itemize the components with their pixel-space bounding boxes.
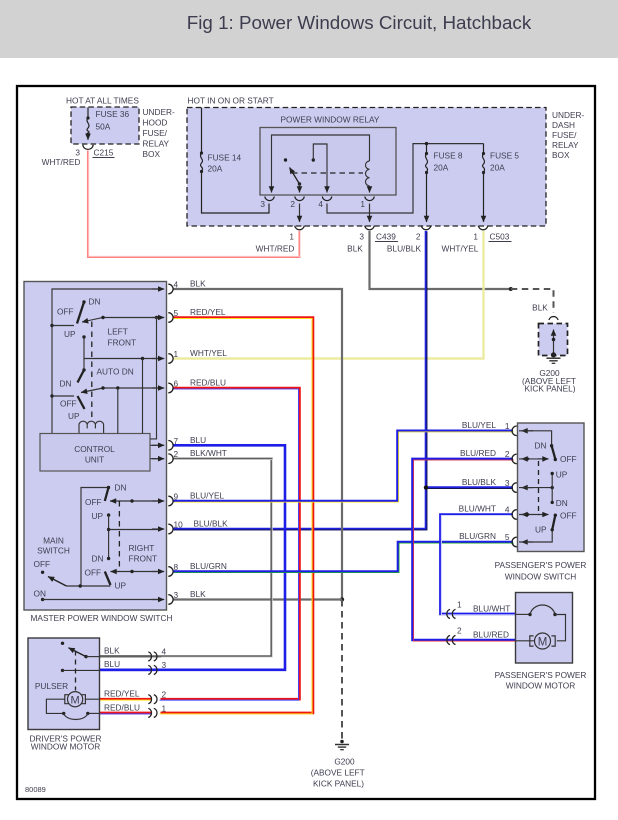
ground G200 right symbol xyxy=(522,358,576,393)
svg-text:3: 3 xyxy=(174,590,179,600)
pulser mech link dashed xyxy=(75,651,77,691)
svg-text:WINDOW MOTOR: WINDOW MOTOR xyxy=(506,681,575,691)
svg-text:DN: DN xyxy=(89,297,101,307)
svg-text:OFF: OFF xyxy=(34,559,51,569)
svg-text:UP: UP xyxy=(556,470,568,480)
svg-text:PULSER: PULSER xyxy=(35,681,68,691)
svg-text:2: 2 xyxy=(416,232,421,242)
svg-text:BLU/GRN: BLU/GRN xyxy=(190,561,227,571)
svg-text:SWITCH: SWITCH xyxy=(37,546,70,556)
svg-text:FUSE/: FUSE/ xyxy=(143,128,168,138)
svg-text:RED/BLU: RED/BLU xyxy=(190,378,226,388)
master pin 1 WHT/YEL connector xyxy=(152,348,227,363)
UP/DN ladder for right front xyxy=(92,511,161,564)
svg-text:DN: DN xyxy=(535,441,547,451)
svg-text:G200: G200 xyxy=(334,757,355,767)
master pin 7 BLU connector xyxy=(152,435,206,450)
wire RED/BLU : master pin 6 to driver motor conn 2 xyxy=(160,388,300,700)
wire relay pin4 to fuses feed xyxy=(327,144,484,213)
svg-text:(ABOVE LEFT: (ABOVE LEFT xyxy=(311,768,365,778)
svg-text:9: 9 xyxy=(174,492,179,502)
svg-text:2: 2 xyxy=(162,690,167,700)
driver motor conn 2 RED/YEL xyxy=(104,689,167,704)
svg-text:HOT AT ALL TIMES: HOT AT ALL TIMES xyxy=(66,96,139,106)
svg-text:BLU/WHT: BLU/WHT xyxy=(459,504,496,514)
svg-text:BLK: BLK xyxy=(347,244,363,254)
driver motor conn 3 BLU xyxy=(104,659,167,675)
svg-text:OFF: OFF xyxy=(560,454,577,464)
svg-text:UNDER-: UNDER- xyxy=(143,107,176,117)
svg-text:FUSE 36: FUSE 36 xyxy=(96,109,130,119)
relay mechanical link (dashed) xyxy=(292,172,363,174)
svg-text:BLU/BLK: BLU/BLK xyxy=(462,477,497,487)
svg-text:OFF: OFF xyxy=(57,307,74,317)
svg-text:1: 1 xyxy=(360,199,365,209)
svg-text:WHT/RED: WHT/RED xyxy=(256,244,295,254)
svg-text:1: 1 xyxy=(162,704,167,714)
svg-text:UP: UP xyxy=(64,329,76,339)
svg-text:3: 3 xyxy=(505,478,510,488)
svg-text:RELAY: RELAY xyxy=(143,139,170,149)
passenger mech link dashed xyxy=(538,461,540,513)
svg-text:2: 2 xyxy=(290,199,295,209)
svg-text:BLK: BLK xyxy=(190,589,206,599)
svg-text:HOT IN ON OR START: HOT IN ON OR START xyxy=(188,96,274,106)
master pin 2 BLK/WHT connector xyxy=(152,448,227,463)
wire F14 to relay pin 3 xyxy=(202,172,270,214)
relay internal frame xyxy=(272,135,370,188)
svg-text:BOX: BOX xyxy=(552,150,570,160)
svg-text:RED/YEL: RED/YEL xyxy=(190,307,226,317)
svg-text:BLU/BLK: BLU/BLK xyxy=(194,519,229,529)
wire BLU/WHT : passenger pin 4 to passenger motor conn 1 xyxy=(440,515,516,615)
ground G200 right box xyxy=(539,324,568,358)
svg-text:1: 1 xyxy=(174,349,179,359)
svg-text:C503: C503 xyxy=(490,232,510,242)
wire BLU/YEL : master pin 9 to passenger pin 1 xyxy=(173,431,514,502)
wire BLK/WHT : master pin 2 to driver motor conn 4 xyxy=(100,459,273,657)
svg-text:BLU: BLU xyxy=(104,659,120,669)
svg-text:FUSE/: FUSE/ xyxy=(552,130,577,140)
relay switch contacts xyxy=(284,158,301,188)
svg-text:BLK: BLK xyxy=(190,279,206,289)
label LEFT FRONT xyxy=(108,327,137,348)
svg-text:20A: 20A xyxy=(434,163,449,173)
svg-text:3: 3 xyxy=(162,660,167,670)
relay pin 4 xyxy=(318,186,331,209)
UP contact to pin 1 row xyxy=(82,335,160,360)
junction fuse 8 tap xyxy=(425,142,428,145)
svg-text:BLU/RED: BLU/RED xyxy=(460,448,496,458)
svg-text:20A: 20A xyxy=(208,164,223,174)
pulser BLU contact row xyxy=(61,669,100,672)
master pin 4 BLK connector xyxy=(152,279,206,294)
fuse F8 20A xyxy=(425,144,463,222)
passenger pin 5 BLU/GRN xyxy=(459,528,554,547)
passenger pin 2 BLU/RED xyxy=(460,448,557,464)
control unit box xyxy=(40,434,150,472)
svg-text:4: 4 xyxy=(162,647,167,657)
wire RED/YEL : master pin 5 to driver motor conn 1 xyxy=(160,318,313,714)
svg-text:PASSENGER'S POWER: PASSENGER'S POWER xyxy=(495,560,587,570)
svg-text:UNDER-: UNDER- xyxy=(552,110,585,120)
svg-text:FRONT: FRONT xyxy=(108,338,137,348)
svg-text:UP: UP xyxy=(68,411,80,421)
svg-text:4: 4 xyxy=(505,505,510,515)
svg-text:1: 1 xyxy=(505,421,510,431)
svg-text:7: 7 xyxy=(174,436,179,446)
svg-text:20A: 20A xyxy=(490,163,505,173)
svg-text:4: 4 xyxy=(174,280,179,290)
wire BLK : master pin 3 to ground junction xyxy=(173,598,342,600)
driver power window motor box xyxy=(28,638,102,752)
svg-text:DN: DN xyxy=(92,554,104,564)
svg-text:POWER WINDOW RELAY: POWER WINDOW RELAY xyxy=(281,115,380,125)
master pin 3 BLK connector xyxy=(152,589,206,604)
svg-text:AUTO DN: AUTO DN xyxy=(97,367,134,377)
wire BLK : master pin 4 to ground junction xyxy=(173,289,344,741)
svg-text:4: 4 xyxy=(318,199,323,209)
control unit outputs pins 7 and 2 xyxy=(150,445,160,458)
svg-text:UP: UP xyxy=(92,511,104,521)
wire BLK ground from C439 to G200 right xyxy=(370,231,554,313)
wire BLU/RED : passenger pin 2 to passenger motor conn 2 xyxy=(413,459,517,641)
svg-text:FUSE 5: FUSE 5 xyxy=(490,151,519,161)
svg-text:BLK: BLK xyxy=(532,303,548,313)
driver motor conn 1 RED/BLU xyxy=(104,703,167,718)
svg-text:BLU/YEL: BLU/YEL xyxy=(190,491,225,501)
svg-text:DASH: DASH xyxy=(552,120,575,130)
master pin 5 RED/YEL connector xyxy=(152,307,226,322)
wire WHT/YEL : C503 to master pin 1 xyxy=(173,231,484,359)
label RIGHT FRONT xyxy=(129,543,158,564)
svg-text:WHT/YEL: WHT/YEL xyxy=(190,348,227,358)
passenger pin 3 BLU/BLK xyxy=(462,477,554,493)
svg-text:WINDOW SWITCH: WINDOW SWITCH xyxy=(505,572,576,582)
box exit connector 2 BLU/BLK xyxy=(387,226,431,254)
svg-text:50A: 50A xyxy=(96,122,111,132)
svg-text:5: 5 xyxy=(505,532,510,542)
svg-text:OFF: OFF xyxy=(60,399,77,409)
svg-text:WHT/YEL: WHT/YEL xyxy=(442,244,479,254)
svg-text:3: 3 xyxy=(359,232,364,242)
passenger power window motor box xyxy=(495,593,587,691)
svg-text:BLK: BLK xyxy=(104,646,120,656)
svg-text:2: 2 xyxy=(174,449,179,459)
svg-text:6: 6 xyxy=(174,379,179,389)
svg-text:FRONT: FRONT xyxy=(129,554,158,564)
relay pin 2 xyxy=(290,186,304,209)
svg-text:Fig 1: Power Windows Circuit,: Fig 1: Power Windows Circuit, Hatchback xyxy=(187,12,532,33)
switch S1 left front DN xyxy=(57,297,100,340)
svg-text:UNIT: UNIT xyxy=(85,455,104,465)
passenger motor conn 2 BLU/RED xyxy=(447,626,509,645)
ground G200 right connector xyxy=(549,317,558,320)
passenger switch blade lower xyxy=(535,511,577,535)
svg-text:BOX: BOX xyxy=(143,149,161,159)
master pin 8 row internal xyxy=(111,570,161,573)
master pin 5 row internal xyxy=(82,316,160,322)
svg-text:ON: ON xyxy=(34,589,46,599)
passenger UP/DN ladder xyxy=(551,470,568,509)
switch S3 left front UP xyxy=(60,396,85,421)
relay pin 3 xyxy=(260,186,274,209)
driver motor M1 xyxy=(46,692,99,720)
passenger pin 1 BLU/YEL xyxy=(462,420,553,447)
svg-text:1: 1 xyxy=(473,232,478,242)
passenger switch blade upper xyxy=(535,441,577,465)
svg-text:OFF: OFF xyxy=(85,568,102,578)
wire RED/YEL motor pigtail row 2 xyxy=(100,698,153,702)
underhood fuse/relay box (dashed) xyxy=(66,96,175,160)
switch S4 right front DN xyxy=(81,483,126,587)
svg-text:BLU/RED: BLU/RED xyxy=(473,630,509,640)
svg-text:DN: DN xyxy=(60,379,72,389)
box exit connector 1 C503 WHT/YEL xyxy=(442,226,512,254)
svg-text:C439: C439 xyxy=(376,232,396,242)
svg-text:1: 1 xyxy=(457,600,462,610)
main switch xyxy=(34,536,161,602)
svg-text:BLK/WHT: BLK/WHT xyxy=(190,448,227,458)
switch S2 AUTO DN xyxy=(60,359,134,389)
master power window switch box xyxy=(24,282,172,624)
svg-text:PASSENGER'S POWER: PASSENGER'S POWER xyxy=(495,670,587,680)
svg-text:3: 3 xyxy=(75,148,80,158)
passenger motor breaker arc xyxy=(516,605,566,641)
mech link dashed right front xyxy=(118,501,120,572)
fuse F14 20A xyxy=(200,108,242,174)
svg-text:1: 1 xyxy=(289,232,294,242)
relay NO contact to pin 4 xyxy=(312,144,327,188)
svg-text:M: M xyxy=(538,636,548,648)
svg-text:3: 3 xyxy=(260,199,265,209)
svg-text:KICK PANEL): KICK PANEL) xyxy=(313,779,364,789)
svg-text:KICK PANEL): KICK PANEL) xyxy=(524,384,575,394)
svg-text:RED/YEL: RED/YEL xyxy=(104,689,140,699)
svg-text:2: 2 xyxy=(457,626,462,636)
driver motor conn 4 BLK xyxy=(104,646,167,662)
mech link dashed S1-S2-coil xyxy=(91,322,93,422)
wire BLU motor pigtail row 3 xyxy=(100,668,153,671)
fuse F36 50A xyxy=(86,108,129,140)
svg-text:RED/BLU: RED/BLU xyxy=(104,703,140,713)
svg-text:BLU/BLK: BLU/BLK xyxy=(387,244,422,254)
svg-text:10: 10 xyxy=(174,520,184,530)
wire BLU/GRN : master pin 8 to passenger pin 5 xyxy=(173,542,514,573)
svg-text:WINDOW MOTOR: WINDOW MOTOR xyxy=(31,742,100,752)
svg-text:C215: C215 xyxy=(94,148,114,158)
svg-text:5: 5 xyxy=(174,308,179,318)
svg-text:8: 8 xyxy=(174,562,179,572)
pulser switch xyxy=(35,642,100,691)
wire relay pin2 to box exit xyxy=(299,204,301,223)
svg-text:HOOD: HOOD xyxy=(143,118,168,128)
master pin 9 row internal xyxy=(110,499,160,502)
svg-text:OFF: OFF xyxy=(560,511,577,521)
relay coil xyxy=(366,161,370,188)
svg-text:DN: DN xyxy=(115,483,127,493)
wire RED/BLU motor pigtail row 1 xyxy=(100,712,153,716)
svg-text:OFF: OFF xyxy=(85,497,102,507)
master pin 10 BLU/BLK connector xyxy=(152,519,228,534)
svg-text:WHT/RED: WHT/RED xyxy=(42,157,81,167)
wire BLK motor pigtail row 4 xyxy=(100,655,153,657)
master pin 8 BLU/GRN connector xyxy=(152,561,227,576)
svg-text:DN: DN xyxy=(556,498,568,508)
master internal BLK rail xyxy=(50,289,160,434)
title bar xyxy=(0,0,618,58)
svg-text:BLU/WHT: BLU/WHT xyxy=(473,604,510,614)
svg-text:CONTROL: CONTROL xyxy=(74,444,115,454)
svg-text:UP: UP xyxy=(535,525,547,535)
box exit connector 1 WHT/RED xyxy=(256,226,305,254)
passenger motor conn 1 BLU/WHT xyxy=(447,600,511,619)
control unit coil xyxy=(79,421,104,433)
svg-text:BLU/YEL: BLU/YEL xyxy=(462,420,497,430)
svg-text:LEFT: LEFT xyxy=(108,327,128,337)
svg-text:80089: 80089 xyxy=(25,785,46,794)
svg-text:RIGHT: RIGHT xyxy=(129,543,155,553)
control unit feed rails xyxy=(118,318,157,439)
passenger power window switch box xyxy=(495,423,587,582)
svg-text:MASTER POWER WINDOW SWITCH: MASTER POWER WINDOW SWITCH xyxy=(31,613,173,623)
underdash fuse/relay box (dashed) xyxy=(187,96,585,227)
ground G200 bottom symbol xyxy=(311,740,365,789)
passenger pin 4 BLU/WHT xyxy=(459,504,557,520)
fuse F5 20A xyxy=(482,144,520,222)
svg-text:RELAY: RELAY xyxy=(552,140,579,150)
svg-text:FUSE 14: FUSE 14 xyxy=(208,153,242,163)
svg-text:2: 2 xyxy=(505,449,510,459)
switch S5 right front UP xyxy=(85,568,127,591)
svg-text:BLU/GRN: BLU/GRN xyxy=(459,531,496,541)
relay pin 1 xyxy=(360,186,374,209)
svg-text:MAIN: MAIN xyxy=(43,536,64,546)
svg-text:M: M xyxy=(71,694,80,706)
master pin 6 RED/BLU connector xyxy=(152,378,226,393)
svg-text:UP: UP xyxy=(115,581,127,591)
svg-text:FUSE 8: FUSE 8 xyxy=(434,151,463,161)
svg-text:BLU: BLU xyxy=(190,435,206,445)
passenger motor M2 xyxy=(516,633,556,649)
power window relay box xyxy=(260,115,396,196)
wire relay pin1 to box exit xyxy=(369,204,371,223)
wire BLU/BLK : C439-2 down, to passenger pin 3 and master pin 10 xyxy=(173,231,513,530)
master pin 9 BLU/YEL connector xyxy=(152,491,225,506)
wire WHT/RED : C215 to relay pin feed xyxy=(88,150,300,257)
connector C215 xyxy=(42,145,115,167)
box exit connector 3 C439 BLK xyxy=(347,226,398,254)
wire BLU : master pin 7 to driver motor conn 3 xyxy=(100,445,286,670)
master pin 6 row internal xyxy=(81,386,160,392)
